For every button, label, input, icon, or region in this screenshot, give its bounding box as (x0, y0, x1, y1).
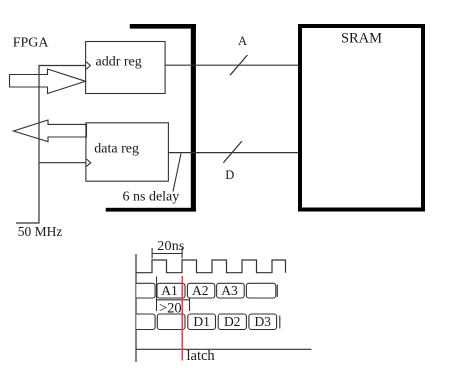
svg-text:D2: D2 (224, 314, 241, 329)
svg-text:A1: A1 (161, 283, 178, 298)
svg-text:data reg: data reg (94, 141, 139, 156)
svg-text:D3: D3 (254, 314, 271, 329)
svg-text:latch: latch (187, 348, 216, 364)
svg-text:50 MHz: 50 MHz (18, 224, 63, 239)
svg-text:A2: A2 (192, 283, 209, 298)
svg-text:SRAM: SRAM (341, 31, 382, 47)
svg-text:20ns: 20ns (157, 239, 184, 254)
svg-text:A: A (238, 34, 247, 48)
svg-text:6 ns delay: 6 ns delay (123, 189, 180, 204)
svg-text:FPGA: FPGA (13, 36, 50, 51)
svg-text:D1: D1 (193, 314, 210, 329)
svg-text:A3: A3 (221, 283, 238, 298)
svg-text:D: D (225, 168, 234, 182)
svg-text:addr reg: addr reg (96, 55, 142, 70)
